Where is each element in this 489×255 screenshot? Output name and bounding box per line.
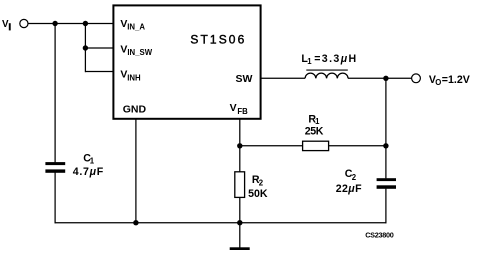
svg-text:V: V	[230, 102, 237, 114]
svg-text:FB: FB	[237, 107, 248, 116]
svg-text:INH: INH	[127, 73, 141, 82]
svg-text:CS23800: CS23800	[365, 231, 394, 240]
svg-text:IN_SW: IN_SW	[127, 48, 152, 57]
svg-text:ST1S06: ST1S06	[190, 33, 246, 47]
svg-text:IN_A: IN_A	[127, 23, 145, 32]
svg-text:1: 1	[307, 57, 312, 66]
svg-text:V: V	[2, 19, 9, 30]
svg-text:2: 2	[259, 179, 264, 188]
svg-text:V: V	[120, 43, 127, 55]
svg-text:=3.3μH: =3.3μH	[314, 53, 357, 65]
svg-text:GND: GND	[123, 103, 147, 115]
svg-text:=1.2V: =1.2V	[442, 74, 470, 86]
svg-text:O: O	[435, 78, 441, 87]
svg-text:25K: 25K	[305, 126, 324, 138]
svg-text:4.7μF: 4.7μF	[73, 166, 104, 178]
svg-text:2: 2	[352, 173, 357, 182]
svg-text:22μF: 22μF	[336, 183, 362, 195]
svg-text:1: 1	[90, 157, 95, 166]
svg-text:SW: SW	[236, 73, 253, 85]
svg-text:50K: 50K	[248, 188, 268, 200]
